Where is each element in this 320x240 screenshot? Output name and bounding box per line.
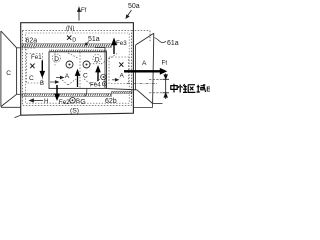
top hatched coil band 51a [22,44,112,48]
char qu [188,85,195,93]
dashed diagonals bottom v left [60,78,76,85]
svg-text:D: D [72,38,76,44]
svg-text:G: G [80,99,85,106]
right face dashed vertical [149,31,151,41]
dashed diagonal right magnet [101,54,117,65]
flux symbol circle-dot right [83,61,90,68]
tick above 62b [108,94,109,97]
top-left step [17,47,21,49]
chinese text 中性区域 (drawn strokes) [171,84,206,93]
char yu [197,84,206,92]
leader squiggle from 61a [155,38,167,43]
small left arrow H [30,99,44,102]
svg-text:(N): (N) [66,26,74,32]
inner right wall front edge [135,45,137,90]
outer box front face rectangle [21,23,134,116]
right magnet dashed cell [109,57,129,84]
dotted vertical near D left [54,53,56,67]
arrow Fe1 bold down [41,61,45,77]
top-left diagonal [1,31,17,48]
svg-text:Fe4: Fe4 [90,82,101,89]
front bottom-left corner tail [15,115,21,117]
thick arrow Ft [124,68,167,75]
inner bottom edge extension right [107,89,137,90]
svg-text:62a: 62a [26,37,38,44]
dotted horizontal right cell [90,63,101,65]
svg-text:61a: 61a [167,40,179,47]
inner box double right edge [104,48,106,89]
small right arrow 2 [56,76,64,79]
symbol x with D top [67,36,71,40]
center dashed divider [79,52,81,88]
svg-text:B: B [206,85,210,94]
inner dotted rectangle 2 [25,33,129,103]
bottom-right diagonal [137,90,153,104]
arrow Ff vertical up [78,8,81,21]
dashed diagonal left cell top [68,53,78,58]
char xing [178,84,187,93]
left bottom horizontal [1,106,21,108]
char zhong [171,84,177,93]
flux circle-dot right magnet [101,74,107,80]
svg-text:Fe2: Fe2 [59,99,70,106]
right back edge [153,33,154,103]
bottom hatched coil band [22,91,132,96]
arrow Fe3 bold up [112,40,116,55]
inner box top-right corner line [95,47,105,49]
svg-text:Ff: Ff [81,8,87,14]
leader from G [85,89,87,97]
hatch ticks on inner box top edge [49,50,107,52]
dash-dot leaders of marker [149,78,162,80]
back-left vertical edge [0,31,2,107]
small right arrow left cell [50,81,59,84]
right back bottom vertical [152,104,154,108]
svg-text:C: C [6,70,11,77]
left inner front edge [16,48,18,95]
flux symbol circle-dot left [66,61,73,68]
top dashed line extension to right face [132,30,150,32]
arrow Fe4 bold up [96,67,100,81]
leader arrow from 50a [126,10,132,18]
svg-text:B: B [40,81,44,87]
svg-text:50a: 50a [128,3,140,10]
svg-text:A: A [142,60,147,67]
left magnet dashed cell [27,54,43,84]
svg-text:62b: 62b [105,98,117,105]
svg-text:C: C [83,72,88,79]
flux circle-dot bottom [70,98,76,104]
svg-text:A: A [65,73,70,80]
svg-text:Ft: Ft [162,60,168,67]
top-right diagonal [136,33,154,45]
dash-dot mid line right face [127,83,157,85]
symbol x left magnet [30,64,34,69]
bottom-right lower horizontal [133,107,152,109]
inner dotted rectangle 1 [22,31,131,106]
arrow Fe2 bold down [55,85,59,99]
svg-text:A: A [120,72,125,79]
inner solid magnet box [49,48,107,89]
center bold up arrow [76,71,80,88]
svg-text:(S): (S) [70,107,79,114]
hidden dashed top edge left [22,47,37,49]
symbol x right magnet [119,62,123,66]
svg-text:Fe3: Fe3 [116,40,127,47]
bottom-left step [17,93,21,95]
small right arrow right magnet [112,79,119,82]
bottom-left diagonal [1,94,17,106]
leader dashes from 62a [26,44,28,50]
svg-text:H: H [44,98,48,105]
small flux circle-dot near Fe4 [102,82,106,86]
leader arrow from 51a [85,42,89,46]
right face bottom horizontal [153,103,163,105]
dimension marker neutral zone [163,74,170,100]
svg-text:C: C [29,75,34,82]
dashed diagonals bottom v right [84,79,100,85]
svg-text:51a: 51a [88,36,100,43]
svg-text:Fe1: Fe1 [31,54,42,61]
